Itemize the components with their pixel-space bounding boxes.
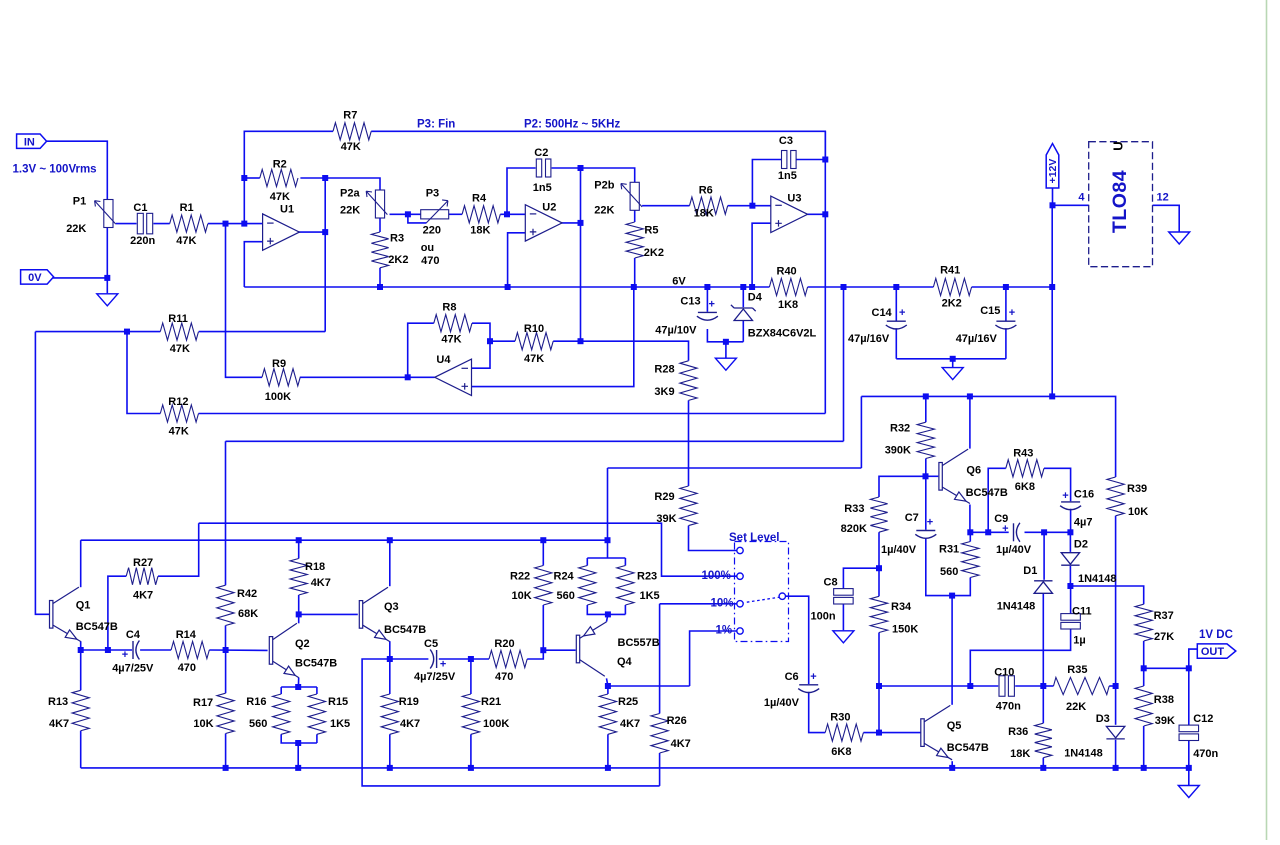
wire R33 top to Q6 base node [879,476,926,497]
svg-text:1n5: 1n5 [778,170,797,182]
wire IN to P1 [45,141,107,199]
node 0V junction [104,275,110,281]
svg-text:Q5: Q5 [947,720,962,732]
wire U3 output vertical [824,131,826,413]
svg-text:560: 560 [249,718,267,730]
wire U2 output vertical [580,168,582,341]
svg-text:R1: R1 [180,202,194,214]
wire Q5 collector vertical [951,596,953,705]
capacitor C4 [133,641,139,660]
wire C15 bottom [1005,328,1007,359]
transistor Q4 BC557B [576,622,606,676]
wire 12V flag [1052,188,1054,205]
wire Q5 emitter [951,761,953,768]
wire 6V bias row [226,440,844,442]
resistor R31 [962,542,979,578]
wire Q4 collector row [608,685,690,687]
wire R28 to R29 [688,400,690,486]
svg-text:4: 4 [1078,192,1085,204]
svg-text:10K: 10K [1128,506,1148,518]
resistor R23 [617,566,634,606]
node 12V lower rail junction [1049,393,1055,399]
switch wiper dashed [747,597,780,602]
wire C8 to ground [842,604,844,630]
node rail R19 junction [387,765,393,771]
svg-text:2K2: 2K2 [942,298,962,310]
svg-text:R37: R37 [1154,610,1174,622]
node R2 left junction [241,175,247,181]
svg-text:1µ/40V: 1µ/40V [881,544,917,556]
wire U3 output [807,213,825,215]
node R43 junction [985,529,991,535]
wire R11 left segment [35,331,160,333]
svg-text:R12: R12 [168,396,188,408]
wire P2a to R3 [379,218,381,232]
svg-text:220: 220 [423,225,441,237]
node Q6 collector rail junction [967,393,973,399]
capacitor C6 [798,685,819,693]
wire R4 to U2 inverting input [500,213,525,215]
wire collector supply row [81,539,608,541]
wire 6V bias to R42 [225,441,227,585]
wire Q6 base [926,475,939,477]
svg-text:100K: 100K [265,391,291,403]
svg-text:C13: C13 [680,296,700,308]
svg-text:47K: 47K [441,333,461,345]
svg-text:47K: 47K [270,191,290,203]
wire R43 left [988,468,1006,532]
switch contact 100% [737,573,743,579]
svg-text:560: 560 [557,590,575,602]
svg-text:27K: 27K [1154,631,1174,643]
svg-text:Q2: Q2 [295,638,310,650]
resistor R7 [333,123,371,140]
node U2 plus rail junction [505,284,511,290]
svg-text:R20: R20 [494,638,514,650]
svg-text:1n5: 1n5 [533,182,552,194]
svg-text:1K8: 1K8 [778,299,798,311]
wire R35 left lead [1043,685,1053,687]
svg-text:C14: C14 [872,307,893,319]
resistor R38 [1135,686,1152,726]
node input junction [223,221,229,227]
wire R12 left [127,332,160,414]
wire P1 bottom to ground [106,228,108,294]
svg-text:4K7: 4K7 [49,718,69,730]
wire P2b wiper to R6 [642,205,689,207]
node Q6 emitter junction [967,529,973,535]
svg-text:6K8: 6K8 [1015,481,1035,493]
ground under C8 [833,631,854,643]
resistor R27 [126,568,158,585]
svg-text:Q4: Q4 [617,656,633,668]
wire R27 right up [158,523,199,576]
node U1 inverting junction [241,221,247,227]
wire R8 right [472,323,490,341]
wire R31 top lead [969,532,971,541]
svg-text:R22: R22 [510,571,530,583]
svg-text:47µ/16V: 47µ/16V [956,333,998,345]
wire R38 top [1143,668,1145,686]
transistor Q1 BC547B [50,587,81,641]
node rail D3 junction [1113,765,1119,771]
node Q3 supply junction [387,537,393,543]
svg-text:R18: R18 [305,561,325,573]
svg-text:12: 12 [1157,192,1169,204]
wire R36 bottom [1042,758,1044,768]
node Q6 base junction [923,473,929,479]
svg-text:2K2: 2K2 [644,247,664,259]
wire R16 R15 top tie [281,686,317,688]
wire to R13 [80,650,82,690]
svg-text:820K: 820K [841,523,867,535]
wire R18 bottom [298,595,300,614]
svg-text:ou: ou [421,242,434,254]
wire Q4 emitter stub [607,614,608,621]
svg-text:BC547B: BC547B [76,621,118,633]
svg-text:U: U [1111,141,1126,150]
wire up to R7 [244,131,333,178]
svg-text:R16: R16 [246,696,266,708]
node U1 output junction [322,229,328,235]
node R2 right junction [322,175,328,181]
svg-text:C7: C7 [905,512,919,524]
wire rail to C15 [1005,287,1007,321]
svg-text:R9: R9 [272,358,286,370]
wire Q6 collector [969,396,971,448]
capacitor C9 [1014,523,1020,542]
wire to C12 [1188,668,1190,725]
wire to ground stub [725,342,727,358]
wire R40 to R41 [808,286,934,288]
ground under C13 [715,358,736,370]
wire switch pole to C6 [786,596,809,684]
wire to P2b top [581,168,635,182]
wire 0V flag [53,277,107,279]
resistor R37 [1135,604,1152,641]
svg-text:4K7: 4K7 [133,590,153,602]
switch contact 1% [737,628,743,634]
node R34 mid junction [876,683,882,689]
capacitor C13 [697,312,718,320]
wire Q2 collector to Q3 base [299,613,358,615]
wire 10% contact row [660,603,737,605]
svg-text:D2: D2 [1074,539,1088,551]
node D4 rail junction [740,284,746,290]
resistor R32 [917,422,934,458]
switch pole contact [779,593,785,599]
svg-text:IN: IN [24,136,35,148]
node D2 C11 junction [1067,583,1073,589]
resistor R3 [371,232,388,268]
capacitor C10 [999,676,1014,697]
wire R43 right to C16 [1044,468,1071,501]
wire output row left [879,685,998,687]
wire bootstrap loop [362,659,659,786]
wire R21 bottom [470,734,472,768]
svg-text:1V DC: 1V DC [1199,629,1233,641]
node R3 rail junction [377,284,383,290]
wire R10 to R28 [553,341,688,361]
wire to P2a top [325,178,380,190]
node R18 supply junction [296,537,302,543]
node R5 rail junction [631,284,637,290]
svg-text:6K8: 6K8 [831,746,851,758]
potentiometer P2b [621,182,642,210]
diode D3 1N4148 [1106,726,1124,739]
svg-text:470: 470 [495,671,513,683]
wire R12 to U3 output [199,413,826,415]
resistor R20 [489,650,527,667]
svg-text:47µ/16V: 47µ/16V [848,333,890,345]
wire Q2 emitter [297,678,299,688]
port IN flag [17,134,47,148]
wire to D3 [1115,686,1117,725]
svg-text:C4: C4 [126,629,141,641]
wire up to C3 [752,160,781,206]
resistor R2 [260,169,298,186]
wire R6 to U3 inverting input [728,205,771,207]
port OUT flag [1197,644,1236,658]
node Q1 emitter junction [78,647,84,653]
wire D1 bottom [1042,593,1044,686]
wire U3 + input to 6V rail [752,223,771,287]
node rail R38 junction [1141,765,1147,771]
wire R42 bottom [225,626,227,651]
svg-text:R30: R30 [830,712,850,724]
resistor R15 [308,694,325,734]
svg-text:C12: C12 [1193,713,1213,725]
svg-text:+: + [1002,523,1008,535]
wire R34 bottom chain [878,633,880,733]
svg-text:R35: R35 [1067,664,1087,676]
svg-text:100%: 100% [702,570,731,582]
wire R9 to U4 output node [300,376,408,378]
IC U TLO84 dashed box [1089,142,1153,267]
wire R20 to base node [527,650,543,659]
resistor R29 [680,486,697,526]
svg-text:P3: P3 [426,187,439,199]
svg-text:Q3: Q3 [384,601,399,613]
svg-text:4K7: 4K7 [620,718,640,730]
capacitor C8 [834,589,854,604]
svg-text:BC547B: BC547B [295,658,337,670]
svg-text:P3: Fin: P3: Fin [417,118,455,130]
resistor R5 [626,222,643,258]
svg-text:BC547B: BC547B [384,624,426,636]
resistor R1 [170,215,208,232]
wire to R37 [1070,586,1143,604]
svg-text:47K: 47K [524,353,544,365]
svg-text:+: + [899,307,905,319]
svg-text:R5: R5 [644,225,658,237]
svg-text:1%: 1% [716,624,733,636]
wire R32 bottom [925,459,927,477]
svg-text:10%: 10% [711,598,734,610]
wire R41 to 12V node [972,286,1053,288]
svg-text:Q1: Q1 [76,600,91,612]
wire 6V rail [244,286,769,288]
resistor R22 [535,566,552,606]
wire left bus to Q1 base [35,332,49,615]
svg-text:560: 560 [940,566,958,578]
svg-text:C5: C5 [424,638,438,650]
svg-text:+: + [927,516,933,528]
svg-text:U2: U2 [542,202,556,214]
resistor R8 [434,315,472,332]
wire R22 bottom [542,605,544,650]
ground under 0V [97,294,118,306]
svg-text:47K: 47K [169,426,189,438]
svg-text:C3: C3 [779,135,793,147]
transistor Q3 BC547B [359,587,390,641]
svg-text:C16: C16 [1074,488,1094,500]
wire P3 to R4 [449,213,462,215]
wire P2b to R5 [634,210,636,222]
wire U2 output [561,222,580,224]
svg-text:47K: 47K [170,343,190,355]
wire R35 right lead [1109,685,1115,687]
wire to R21 [470,659,472,694]
node rail R17 junction [223,765,229,771]
svg-text:1N4148: 1N4148 [1078,573,1117,585]
svg-text:4µ7: 4µ7 [1074,516,1093,528]
svg-text:+: + [810,671,816,683]
resistor R6 [690,197,728,214]
svg-text:D1: D1 [1023,565,1037,577]
svg-text:R41: R41 [940,265,960,277]
wire emitter row to C4 [81,649,132,651]
capacitor C12 [1179,725,1199,740]
wire U4 + input to 6V rail [472,287,634,387]
svg-text:22K: 22K [66,223,86,235]
node R22 supply junction [540,537,546,543]
svg-text:BC547B: BC547B [966,487,1008,499]
node R21 junction [468,656,474,662]
transistor Q5 BC547B [921,705,952,759]
resistor R43 [1006,460,1044,477]
capacitor C5 [430,650,436,669]
diode D1 1N4148 [1034,581,1052,594]
potentiometer P3 [421,200,449,223]
wire to R17 [225,650,227,693]
node P2a wiper junction [405,211,411,217]
switch outline box [735,542,789,642]
svg-text:R2: R2 [273,159,287,171]
svg-text:R38: R38 [1154,694,1174,706]
svg-text:R19: R19 [399,696,419,708]
svg-text:R15: R15 [328,696,348,708]
capacitor C11 [1061,614,1081,629]
wire Q1 emitter [80,641,82,650]
potentiometer P2a [366,190,387,218]
wire to Q4 base [543,649,575,651]
svg-text:150K: 150K [892,624,918,636]
node C11 row junction [967,683,973,689]
capacitor C1 [137,213,152,234]
op-amp U3 [771,196,808,232]
wire C16 bottom [1070,509,1072,533]
wire R1 to U1 inverting input [208,223,263,225]
svg-text:100n: 100n [811,611,836,623]
wire to OUT flag [1189,649,1198,668]
wire U4 inverting input [472,341,491,368]
svg-text:R14: R14 [176,629,197,641]
resistor R17 [217,693,234,733]
wire down to R23 R24 [607,468,609,558]
wire R7 to U3 feedback node [371,131,825,159]
svg-text:TLO84: TLO84 [1109,170,1131,233]
wire to D1 [1043,532,1045,580]
svg-text:P2a: P2a [340,187,360,199]
wire 12V feed corner [860,396,862,468]
op-amp U1 [263,214,300,250]
svg-text:68K: 68K [238,608,258,620]
node OUT junction [1186,665,1192,671]
wire R24 top lead [586,558,588,566]
wire output node row [1144,667,1189,669]
svg-text:R13: R13 [48,696,68,708]
wire to 100% contact [199,523,737,576]
wire D2 bottom [1069,566,1071,586]
wire to D2 [1069,532,1071,552]
resistor R21 [462,694,479,734]
wire C11 bottom loop [970,629,1070,686]
resistor R12 [160,405,198,422]
node rail Q5 junction [949,765,955,771]
resistor R9 [262,369,300,386]
svg-text:+: + [122,649,128,661]
wire pin 12 to ground [1153,205,1180,231]
node Q4 base junction [540,647,546,653]
svg-text:+: + [440,659,446,671]
svg-text:1µ/40V: 1µ/40V [996,544,1032,556]
svg-text:BC547B: BC547B [947,742,989,754]
node U3 output junction [822,211,828,217]
wire C14 bottom [895,328,897,359]
svg-text:1µ: 1µ [1073,635,1085,647]
svg-text:4K7: 4K7 [311,577,331,589]
svg-text:10K: 10K [512,590,532,602]
svg-text:1N4148: 1N4148 [1064,747,1103,759]
svg-text:R43: R43 [1013,447,1033,459]
resistor R25 [599,694,616,734]
svg-text:R23: R23 [637,571,657,583]
node Q4 emitter junction [605,611,611,617]
wire R2 right lead [300,177,325,179]
sheet border right edge [1266,0,1268,840]
wire R27 left [108,576,126,650]
svg-text:1µ/40V: 1µ/40V [764,697,800,709]
svg-text:R3: R3 [390,232,404,244]
svg-text:C2: C2 [534,147,548,159]
svg-text:R27: R27 [133,557,153,569]
node rail R21 junction [468,765,474,771]
node U3 input junction [749,203,755,209]
node R32 rail junction [923,393,929,399]
wire R17 bottom [225,734,227,768]
svg-text:1N4148: 1N4148 [997,601,1036,613]
svg-text:47µ/10V: 47µ/10V [655,325,697,337]
wire R23 R24 top tie [587,557,625,559]
resistor R39 [1107,477,1124,516]
svg-text:R32: R32 [890,422,910,434]
svg-text:R26: R26 [667,715,687,727]
svg-text:18K: 18K [694,208,714,220]
ground bottom right [1178,786,1199,798]
svg-text:4µ7/25V: 4µ7/25V [112,662,154,674]
transistor Q6 BC547B [939,449,970,503]
